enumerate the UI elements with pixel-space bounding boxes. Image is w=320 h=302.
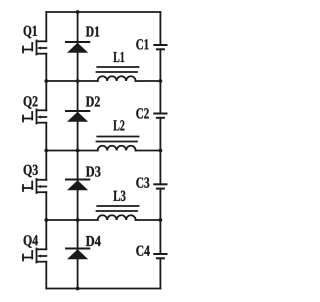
wire right rail C2 to node2 [159,118,161,151]
wire left rail segment above Q1 [45,12,47,41]
wire stage2 node bus right segment [136,150,161,152]
inductor L2 coil [98,146,136,151]
transistor Q2 [23,110,47,124]
wire bottom bus [46,288,160,290]
wire top bus [46,11,160,13]
node top diode junction [76,10,80,14]
node A2 left [44,149,48,153]
wire left rail node3 to Q4 [45,220,47,249]
diode D2 [66,111,89,122]
wire right rail C3 to node3 [159,189,161,220]
wire left rail Q2 source to node2 [45,123,47,151]
wire left rail Q3 source to node3 [45,192,47,220]
node A1 left [44,79,48,83]
wire stage2 node bus left segment [46,150,97,152]
node A1 mid [76,79,80,83]
node A2 mid [76,149,80,153]
inductor L3 core lines [97,206,139,211]
label L3 [113,191,125,201]
wire stage3 node bus left segment [46,219,97,221]
inductor L1 coil [98,76,136,81]
wire right rail node3 to C4 [159,220,161,254]
node A3 mid [76,218,80,222]
label Q4 [24,235,38,248]
wire left rail node2 to Q3 [45,151,47,180]
capacitor C1 [154,45,166,49]
label L2 [113,120,124,130]
wire right rail top to C1 [159,12,161,45]
wire diode rail stage3 [77,151,79,221]
node A3 right [159,218,163,222]
wire stage3 node bus right segment [136,219,161,221]
label D4 [86,236,101,246]
diode D1 [66,42,89,53]
node A2 right [159,149,163,153]
wire left rail node1 to Q2 [45,81,47,110]
label C2 [136,108,148,118]
wire right rail node2 to C3 [159,151,161,185]
transistor Q4 [23,249,47,263]
wire right rail C1 to node1 [159,49,161,81]
wire diode rail stage4 [77,220,79,289]
transistor Q1 [23,41,47,55]
label C4 [136,246,149,256]
capacitor C4 [154,254,166,258]
wire stage1 node bus right segment [136,80,161,82]
label Q1 [24,26,37,39]
label C1 [136,39,148,49]
capacitor C2 [154,114,166,118]
wire stage1 node bus left segment [46,80,97,82]
label D3 [86,166,101,176]
wire right rail C4 to bottom bus [159,258,161,288]
label D2 [86,96,100,106]
diode D4 [66,249,89,260]
wire left rail Q4 source to bottom bus [45,262,47,289]
node A3 left [44,218,48,222]
label Q3 [24,165,38,178]
inductor L1 core lines [97,67,139,72]
diode D3 [66,180,89,191]
capacitor C3 [154,184,166,188]
label D1 [86,26,99,36]
wire diode rail stage2 [77,81,79,151]
wire right rail node1 to C2 [159,81,161,114]
label C3 [136,177,149,187]
transistor Q3 [23,179,47,193]
inductor L3 coil [98,215,136,220]
label Q2 [24,96,38,109]
inductor L2 core lines [97,137,139,142]
wire left rail Q1 source to node1 [45,54,47,81]
label L1 [113,52,124,62]
wire diode rail stage1 [77,12,79,81]
node bottom diode junction [76,287,80,291]
node A1 right [159,79,163,83]
